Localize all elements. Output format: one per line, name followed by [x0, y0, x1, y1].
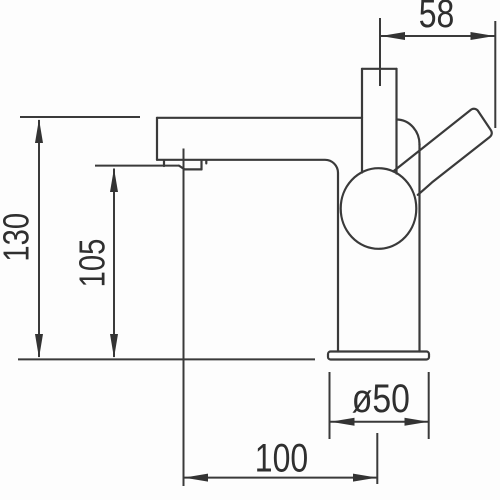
aerator tick right — [205, 160, 207, 163]
dimension line 58 — [381, 35, 495, 37]
arrow 58 left — [381, 32, 405, 40]
dimension line 130 — [38, 120, 40, 357]
control stick top edge — [362, 68, 397, 70]
arrow 105 up — [110, 168, 118, 192]
spout bottom edge + corner + column left edge — [157, 160, 338, 352]
svg-text:105: 105 — [72, 239, 113, 288]
control stick right edge — [395, 69, 397, 174]
dimension line 105 — [113, 169, 115, 358]
extension line aerator centre — [183, 149, 185, 487]
extension line flange left — [329, 372, 331, 439]
lever handle — [393, 109, 491, 195]
column right edge — [418, 144, 420, 352]
arrow 130 down — [35, 334, 43, 358]
aerator slant — [179, 166, 185, 170]
dimension line 100 — [184, 477, 377, 479]
svg-text:58: 58 — [419, 0, 455, 36]
extension line aerator level — [95, 165, 179, 167]
extension line lever tip — [494, 21, 496, 128]
body shoulder arc — [397, 120, 420, 146]
arrow 58 right — [471, 32, 495, 40]
arrow d50 left — [331, 418, 355, 426]
valve body circle — [341, 168, 417, 249]
aerator bottom — [185, 168, 202, 170]
arrow 100 left — [184, 474, 208, 482]
extension line top (spout top level) — [20, 116, 140, 118]
extension line stick centre — [379, 18, 381, 86]
spout top edge — [157, 117, 362, 119]
control stick left edge — [361, 69, 363, 173]
extension line faucet centre — [376, 433, 378, 484]
arrow 100 right — [353, 474, 377, 482]
svg-text:130: 130 — [0, 213, 37, 262]
arrow 130 up — [35, 119, 43, 143]
extension line flange right — [428, 372, 430, 439]
svg-text:100: 100 — [255, 435, 308, 480]
aerator tick left — [163, 160, 165, 166]
dimension line d50 — [330, 421, 429, 423]
svg-text:ø50: ø50 — [352, 375, 410, 420]
arrow d50 right — [405, 418, 429, 426]
base flange — [328, 352, 429, 360]
aerator right edge — [200, 160, 202, 169]
extension line base level — [18, 358, 315, 360]
spout left edge — [156, 118, 158, 160]
arrow 105 down — [110, 334, 118, 358]
